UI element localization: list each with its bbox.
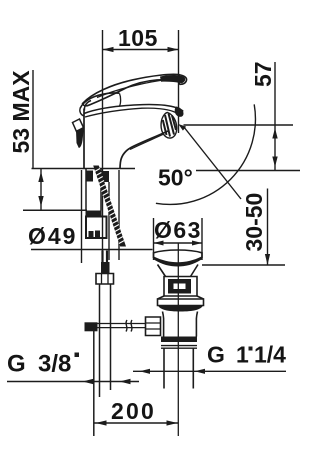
svg-text:Ø49: Ø49	[28, 223, 77, 249]
hex nut	[96, 274, 114, 285]
svg-text:30-50: 30-50	[241, 193, 267, 252]
washer outline	[86, 217, 107, 239]
rod clamp left	[85, 322, 98, 331]
50 deg diagonal leader	[184, 127, 242, 200]
dim 30-50 arrow down	[265, 254, 270, 265]
cartridge cap curve	[80, 93, 120, 109]
spout underside and bell	[120, 131, 168, 169]
shank right line	[100, 169, 102, 211]
tailpiece right	[192, 348, 194, 388]
dim 57 line	[274, 62, 276, 171]
lever heel knob	[73, 119, 84, 132]
53 MAX underline	[32, 70, 34, 169]
dia 63 arrow right	[192, 241, 202, 246]
waste tube right	[196, 312, 197, 337]
under-deck vertical 109	[108, 182, 110, 260]
dim 30-50 line	[267, 189, 269, 266]
spout top line	[84, 105, 183, 114]
supply hose right line	[110, 284, 112, 390]
dim 57 arrow down	[272, 157, 277, 168]
dim 57 arrow up	[272, 128, 277, 139]
G 3/8 arrow 1	[83, 379, 94, 384]
svg-text:3/8: 3/8	[38, 351, 71, 378]
basin surface line	[31, 249, 153, 251]
outlet hatch	[163, 114, 176, 137]
G 1 1/4 arrow 2	[195, 369, 206, 374]
dia 63 arrow left	[154, 241, 164, 246]
washer foot left	[89, 231, 94, 238]
lever inner streak	[97, 79, 172, 98]
lever tip dark	[160, 75, 185, 83]
supply hose left line	[99, 284, 101, 397]
waste square black	[168, 279, 191, 294]
dim 200 arrow left	[96, 420, 107, 425]
waste neck left	[158, 265, 166, 277]
hex nut facets	[102, 274, 109, 285]
threaded stud diagonal	[93, 166, 126, 247]
G 3/8 leader line	[7, 381, 139, 383]
G 1 1/4 leader line	[133, 370, 286, 372]
dia 63 left extension	[153, 218, 155, 260]
pop-up rod upper line	[88, 323, 146, 325]
rod clamp inner line	[146, 323, 161, 329]
svg-text:57: 57	[250, 61, 276, 87]
svg-text:53 MAX: 53 MAX	[8, 70, 34, 154]
dim 105 arrow right	[168, 47, 179, 52]
washer foot right	[95, 231, 100, 238]
pop-up rod lower line	[88, 327, 146, 329]
shank left line	[85, 169, 87, 211]
shank dark left block	[87, 171, 94, 182]
cap left bulge	[80, 109, 84, 116]
lower reference line	[23, 209, 87, 211]
svg-text:105: 105	[118, 25, 158, 51]
stud nut black square	[102, 171, 110, 182]
waste body rect	[164, 277, 197, 297]
dim 200 arrow right	[167, 420, 178, 425]
faucet lever handle	[83, 74, 187, 105]
dia 63 dim line	[154, 242, 203, 244]
hose connector block	[101, 262, 110, 274]
body left edge	[83, 109, 85, 169]
lever heel	[84, 101, 91, 111]
svg-text:50°: 50°	[158, 165, 193, 191]
extension line left of 105	[102, 30, 104, 262]
53 MAX arrow up	[38, 172, 43, 183]
svg-text:G: G	[7, 351, 26, 378]
rod clamp at drain	[146, 317, 161, 336]
waste cap dome	[154, 250, 203, 258]
spout level line	[184, 124, 294, 126]
rod break mark 1	[126, 320, 127, 332]
53 MAX arrow down	[38, 196, 43, 207]
dim 200 line	[95, 422, 179, 424]
dia 63 right extension	[201, 218, 203, 260]
shank nut band	[86, 211, 102, 217]
extension line right of 105	[178, 30, 180, 133]
spout underside inner	[130, 134, 164, 150]
cap right edge	[120, 94, 121, 107]
G 1 1/4 arrow 1	[140, 369, 151, 374]
diagonal arrowhead	[178, 124, 186, 131]
waste flange bottom band	[158, 306, 203, 312]
svg-text:1: 1	[236, 342, 249, 368]
waste flange	[158, 299, 204, 306]
spout outlet teardrop	[161, 113, 177, 139]
waste level line	[202, 264, 285, 266]
dia 49 left extension	[81, 170, 83, 263]
dim 105 line	[103, 49, 179, 51]
53 MAX dim line	[40, 169, 42, 211]
waste flare right	[197, 296, 204, 299]
waste flare left	[158, 296, 165, 299]
waste neck right	[191, 265, 199, 277]
svg-text:G: G	[207, 342, 225, 368]
G 3/8 arrow 2	[120, 379, 131, 384]
swing arc	[156, 104, 256, 204]
stud end stubs	[103, 251, 108, 263]
spout top secondary	[85, 108, 180, 117]
svg-text:Ø63: Ø63	[154, 217, 202, 243]
right reference line	[196, 170, 300, 172]
tailpiece left	[163, 348, 165, 388]
svg-text:1/4: 1/4	[254, 342, 286, 368]
dim 105 arrow left	[103, 47, 114, 52]
deck reference line	[32, 168, 136, 170]
coupling nut bottom	[161, 346, 197, 349]
drain centerline	[177, 244, 179, 437]
dia 49 right extension	[118, 170, 120, 260]
lever heel knob dark	[76, 127, 84, 148]
waste tube left	[163, 312, 164, 337]
waste cap base band	[154, 257, 202, 267]
coupling nut band	[161, 337, 197, 343]
rod break mark 2	[131, 320, 132, 332]
pull rod line	[93, 331, 95, 436]
svg-text:200: 200	[111, 398, 156, 424]
spout tip face dark	[175, 107, 184, 117]
